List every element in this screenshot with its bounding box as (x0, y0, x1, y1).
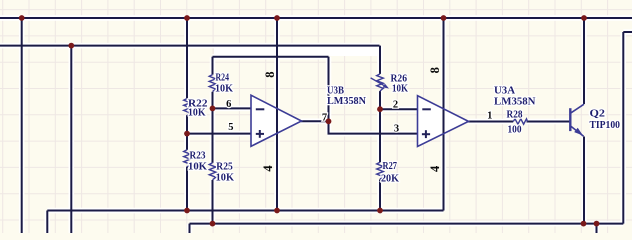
label U3B (327, 86, 344, 97)
label LM358N (327, 96, 366, 107)
junction J14 at (212.5,223.6) (210, 221, 216, 227)
svg-text:4: 4 (428, 165, 442, 172)
svg-text:R28: R28 (507, 110, 523, 121)
svg-text:4: 4 (261, 165, 275, 172)
svg-text:100: 100 (508, 124, 522, 135)
wire bottom stub wire (596, 224, 598, 233)
wire feedback top segment (213, 56, 329, 58)
wire Q2 emitter vertical wire (583, 137, 585, 224)
svg-text:U3A: U3A (494, 85, 515, 96)
svg-text:R23: R23 (190, 150, 206, 161)
wire R24-R25 middle wire (212, 92, 214, 163)
wire left vertical wire 1 (21, 18, 23, 233)
wire R24 top lead wire (212, 57, 214, 75)
pin number 2 (393, 100, 398, 111)
wire bottom rail left drop wire (189, 224, 191, 233)
pin number 3 (394, 124, 399, 135)
white band artifact (214, 47, 379, 56)
label 10K (188, 108, 206, 119)
op-amp U3B body (251, 95, 302, 146)
label LM358N (494, 97, 536, 108)
op-amp U3B plus input mark (256, 130, 264, 138)
svg-text:7: 7 (322, 112, 327, 123)
wire R22 top lead wire (186, 18, 188, 99)
svg-text:1: 1 (487, 110, 492, 121)
wire top rail VCC (0, 17, 632, 19)
wire Q2 collector vertical wire (583, 18, 585, 104)
junction J11 at (187,210.5) (184, 208, 190, 214)
transistor Q2 base bar (569, 108, 571, 131)
label 10K (188, 162, 208, 173)
svg-text:10K: 10K (188, 108, 206, 119)
wire R27 bottom lead wire (379, 179, 381, 210)
resistor R26 (377, 74, 384, 91)
wire U3A power vertical wire (443, 18, 445, 211)
wire U3B pin6 input wire (212, 107, 252, 109)
label R25 (216, 162, 233, 173)
wire U3B pin5 input wire (186, 133, 252, 135)
svg-text:TIP100: TIP100 (590, 120, 621, 131)
label R23 (190, 150, 206, 161)
junction J3 at (277,18) (274, 15, 280, 21)
svg-text:R24: R24 (216, 73, 230, 84)
junction J15 at (583.5,223.6) (581, 221, 587, 227)
svg-text:R25: R25 (216, 162, 233, 173)
svg-text:8: 8 (428, 67, 442, 73)
svg-text:6: 6 (226, 99, 231, 110)
label R28 (507, 110, 523, 121)
junction J12 at (277,210.5) (274, 208, 280, 214)
pin number 6 (226, 99, 231, 110)
junction J16 at (596.5,223.6) (594, 221, 600, 227)
svg-text:10K: 10K (392, 84, 409, 95)
resistor R25 (209, 163, 216, 180)
label 10K (216, 173, 235, 184)
svg-text:10K: 10K (188, 162, 208, 173)
wire U3B output pin7 wire (301, 120, 330, 122)
pin number 1 (487, 110, 492, 121)
wire R26 top lead wire (379, 46, 381, 74)
resistor R26 wiper arrow (371, 78, 389, 89)
wire R25 bottom lead wire (212, 180, 214, 224)
label Q2 (590, 108, 606, 119)
wire feedback vertical wire (328, 57, 330, 134)
label 10K (392, 84, 409, 95)
wire R23 bottom lead wire (186, 167, 188, 211)
resistor R28 (513, 119, 527, 124)
label R22 (188, 99, 208, 110)
wire top-right stub wire (623, 31, 632, 33)
pin number 5 (228, 122, 233, 133)
wire U3A pin3 input wire (328, 133, 419, 135)
svg-text:10K: 10K (216, 173, 235, 184)
wire right vertical wire (622, 32, 624, 224)
wire U3B power vertical wire (276, 18, 278, 211)
svg-text:2: 2 (393, 100, 398, 111)
junction J5 at (584,18) (581, 15, 587, 21)
wire U3A output pin1 wire to R28 (468, 121, 513, 123)
label U3A (494, 85, 515, 96)
junction J10 at (328.5,121.3) (326, 118, 332, 124)
junction J1 at (21.7,18) (19, 15, 25, 21)
wire lower-left drop wire (46, 211, 48, 234)
junction J2 at (187,18) (184, 15, 190, 21)
wire lower rail (47, 210, 443, 212)
resistor R22 (184, 99, 191, 116)
resistor R27 (377, 162, 384, 179)
wire R22-R23 middle wire (186, 115, 188, 150)
op-amp U3A body (418, 96, 469, 147)
wire U3A pin2 input wire (379, 108, 418, 110)
label 10K (215, 84, 234, 95)
svg-text:10K: 10K (215, 84, 234, 95)
svg-text:R27: R27 (383, 161, 398, 172)
transistor Q2 emitter lead with arrow (570, 126, 583, 137)
pin number 7 (322, 112, 327, 123)
svg-text:U3B: U3B (327, 86, 344, 97)
wire R26-R27 middle wire (379, 91, 381, 162)
op-amp U3B minus input mark (256, 108, 264, 110)
label TIP100 (590, 120, 621, 131)
junction J9 at (187,133.6) (184, 131, 190, 137)
svg-text:LM358N: LM358N (494, 97, 536, 108)
svg-text:Q2: Q2 (590, 108, 606, 119)
junction J7 at (212.5,108.4) (210, 106, 216, 112)
svg-text:LM358N: LM358N (327, 96, 366, 107)
svg-text:3: 3 (394, 124, 399, 135)
junction J4 at (443.5,18) (441, 15, 447, 21)
junction J8 at (380,109.2) (377, 106, 383, 112)
label R26 (391, 73, 408, 84)
svg-text:5: 5 (228, 122, 233, 133)
wire second rail (0, 45, 380, 47)
junction J6 at (71.3,45.6) (68, 43, 74, 49)
wire left vertical wire 2 (70, 46, 72, 233)
label 20K (381, 174, 400, 185)
resistor R23 (184, 150, 191, 167)
label R24 (216, 73, 230, 84)
label R27 (383, 161, 398, 172)
op-amp U3A minus input mark (422, 108, 431, 110)
svg-text:8: 8 (263, 71, 277, 77)
svg-text:20K: 20K (381, 174, 400, 185)
transistor Q2 collector lead (570, 104, 584, 113)
op-amp U3A plus input mark (422, 130, 430, 138)
resistor R24 (209, 75, 216, 92)
label 100 (508, 124, 522, 135)
junction J13 at (380,210.5) (377, 208, 383, 214)
wire bottom rail (190, 223, 624, 225)
wire R28 to Q2 base wire (527, 121, 571, 123)
